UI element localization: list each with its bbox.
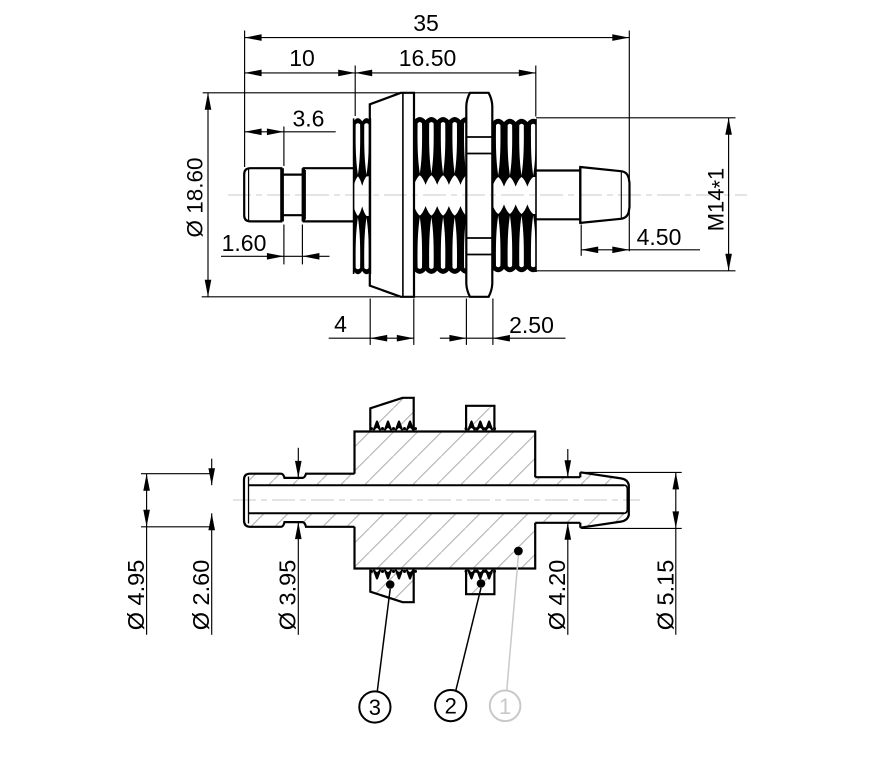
- plain shaft: [536, 171, 580, 220]
- threaded barrel M14 right part: [489, 119, 542, 273]
- thread teeth lower nut block: [465, 570, 497, 580]
- dimension 3.6 cap length: [245, 106, 336, 167]
- nut block section upper: [466, 406, 494, 431]
- dimension diameter 2.60: [188, 459, 215, 635]
- dimension M14x1 thread callout: [536, 118, 736, 271]
- dimension diameter 3.95: [275, 448, 302, 635]
- balloon 3 leader: [377, 589, 390, 692]
- svg-text:Ø 2.60: Ø 2.60: [188, 560, 214, 631]
- dimension 2.50 nut width: [440, 299, 566, 345]
- svg-text:M14*1: M14*1: [704, 168, 733, 232]
- bore lines: [249, 485, 628, 513]
- dimension 16.50: [355, 45, 536, 117]
- svg-text:4.50: 4.50: [637, 224, 682, 250]
- dimension diameter 18.60: [183, 93, 471, 297]
- svg-text:Ø 5.15: Ø 5.15: [653, 560, 679, 631]
- dimension 1.60 neck width: [221, 225, 330, 265]
- hex nut: [466, 93, 492, 297]
- svg-text:16.50: 16.50: [399, 45, 457, 71]
- dimension 10: [245, 45, 356, 116]
- balloon 3: [359, 691, 390, 722]
- svg-text:4: 4: [334, 311, 347, 337]
- dimension 4.50 barb length: [581, 224, 700, 256]
- shaft and barb section outline: [535, 472, 629, 527]
- svg-text:10: 10: [289, 45, 315, 71]
- svg-text:Ø 3.95: Ø 3.95: [275, 560, 301, 631]
- leader dot on lower nut block: [477, 579, 486, 588]
- section hatching tube walls: [249, 474, 355, 527]
- bulkhead flange: [370, 93, 414, 297]
- balloon 2 leader: [456, 588, 481, 691]
- section hatching main body: [355, 432, 536, 569]
- thread teeth lower flange block: [370, 570, 417, 580]
- dimension 4 flange width: [329, 299, 414, 345]
- dimension diameter 5.15: [581, 472, 681, 634]
- flange block section upper: [370, 398, 413, 431]
- main body outline: [355, 432, 536, 569]
- balloon 2: [435, 690, 466, 721]
- balloon 1 (ghost): [490, 691, 521, 722]
- centerline of connector side view: [228, 194, 747, 196]
- dimension diameter 4.20: [544, 449, 571, 635]
- svg-text:Ø 4.95: Ø 4.95: [123, 560, 149, 631]
- svg-text:3: 3: [369, 695, 381, 720]
- nut block section lower: [466, 570, 494, 595]
- svg-text:3.6: 3.6: [293, 106, 325, 132]
- threaded barrel M14 left part: [411, 117, 476, 274]
- lock washer / spring section: [350, 118, 374, 274]
- centerline of section view: [233, 499, 640, 501]
- leader dot on main body: [514, 547, 523, 556]
- svg-text:2: 2: [445, 694, 457, 719]
- section hatching shaft and barb walls: [535, 472, 626, 527]
- svg-text:2.50: 2.50: [509, 312, 554, 338]
- pin neck groove: [281, 168, 303, 221]
- thread teeth upper nut block: [465, 420, 497, 430]
- leader dot on lower flange block: [386, 580, 395, 589]
- balloon 1 leader (ghost): [507, 555, 519, 691]
- dimension diameter 4.95: [123, 474, 212, 635]
- hose barb tip: [580, 167, 629, 223]
- svg-text:Ø 4.20: Ø 4.20: [544, 560, 570, 631]
- flange block section lower: [370, 570, 413, 603]
- svg-text:Ø 18.60: Ø 18.60: [183, 157, 208, 237]
- dimension 35 overall length: [245, 10, 630, 251]
- svg-text:1: 1: [499, 694, 511, 719]
- pin cap (SMB plug snap-on tip): [244, 168, 281, 221]
- plug body barrel: [303, 168, 354, 221]
- thread teeth upper flange block: [370, 420, 417, 430]
- inner conductor tube outline: [244, 474, 355, 527]
- svg-text:1.60: 1.60: [222, 230, 267, 256]
- svg-text:35: 35: [413, 10, 439, 36]
